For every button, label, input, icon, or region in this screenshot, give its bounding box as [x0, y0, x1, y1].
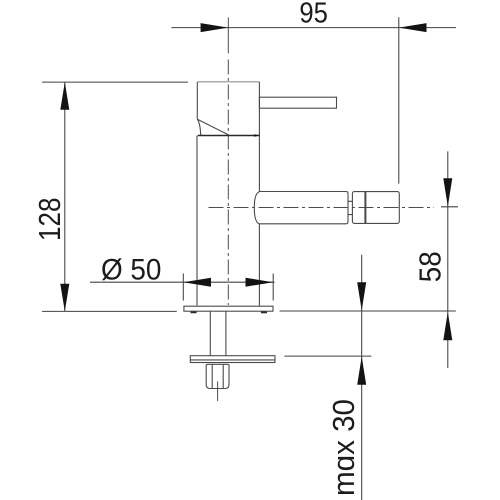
svg-text:95: 95 [299, 0, 328, 30]
svg-text:mɑx 30: mɑx 30 [326, 399, 361, 496]
svg-text:Ø 50: Ø 50 [101, 254, 162, 287]
svg-text:128: 128 [32, 197, 67, 241]
svg-text:58: 58 [413, 251, 448, 282]
